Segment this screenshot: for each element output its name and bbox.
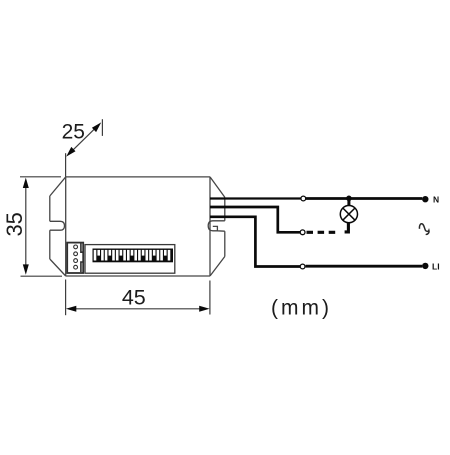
arrowhead down [23,264,29,274]
lamp bottom stub [345,223,349,232]
svg-text:45: 45 [122,286,146,310]
connector node [300,264,305,269]
svg-text:25: 25 [62,120,85,143]
dimension 45 extension right [209,281,211,315]
right cable hook [208,221,225,231]
dimension 35 extension top [20,176,61,178]
dimension 25 tick upper [101,119,103,136]
junction J1 [346,196,352,202]
wire L line [306,265,423,268]
terminal block TB1 [67,243,83,273]
svg-text:N: N [433,195,439,205]
svg-text:(mm): (mm) [271,297,332,320]
dimension 35 line [25,182,27,271]
dimension 45 extension left [65,280,67,316]
left mounting notch [50,221,65,230]
connector node [301,196,306,201]
connector node [300,230,305,235]
terminal screws [74,245,78,249]
svg-text:35: 35 [2,212,27,236]
dashed wire to lamp [307,231,336,234]
lamp E1 [340,206,357,223]
DIP switch S1 [85,245,175,274]
wire W3 live from device [210,217,300,267]
lamp E1 stub top [347,198,350,205]
right fold line [209,177,211,276]
terminal N [422,196,428,202]
dimension 25 tick lower [65,153,67,177]
arrowhead lower-left [66,147,75,157]
device enclosure outline [50,177,225,276]
wire W2 switched live from device [210,207,300,232]
switch slots [94,250,171,261]
arrowhead upper-right [92,122,101,132]
arrowhead left [66,306,76,312]
AC symbol [419,224,429,235]
dimension 35 extension bottom [21,275,63,277]
dimension 25 line [71,127,98,153]
wire N line [306,197,423,200]
dimension 45 line [70,308,206,310]
terminal L [422,263,428,269]
wire W1 neutral from device [210,197,301,199]
arrowhead right [199,306,209,312]
svg-text:LI: LI [432,261,440,271]
left fold line [65,177,67,276]
arrowhead up [23,178,29,188]
